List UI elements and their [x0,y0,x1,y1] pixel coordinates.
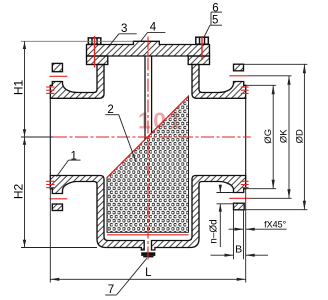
body lower-left wall, left pipe lower wall, bottom left half [50,176,144,251]
callout 6 over 5 [204,12,222,37]
body top flange block right [188,56,209,65]
bolt centerline left [94,36,96,68]
right flange bolt hole centerlines [229,75,248,77]
svg-text:H2: H2 [11,184,25,200]
left flange bolt hole centerlines [50,75,68,77]
dimension H1 [21,41,133,137]
left flange top block [52,63,62,71]
svg-text:B: B [235,244,242,256]
chamfer dimension fX45 [229,228,287,230]
centerline black segment left [21,136,54,138]
strainer basket item 2 perforated screen [107,96,189,235]
svg-text:L: L [145,267,152,279]
callout 7 [105,258,147,295]
svg-text:5: 5 [212,14,218,26]
svg-text:1: 1 [70,150,76,162]
right flange bottom block [234,203,245,210]
gasket face red ticks right flange [241,87,249,188]
dimension n-Od bolt hole [217,185,234,247]
bolt centerline right [201,36,203,60]
bolt left item 5 [88,38,101,44]
dimension OG [246,85,277,188]
bolt right item 5 [196,37,209,44]
dimension OD [244,64,308,209]
svg-text:ØD: ØD [294,129,305,143]
svg-text:fX45°: fX45° [264,219,287,229]
callout 2 [105,115,136,162]
cover plate item 3 [87,41,210,56]
svg-text:3: 3 [121,23,127,35]
svg-text:ØK: ØK [279,129,290,143]
right flange top block [234,64,244,71]
body top flange block left [87,56,108,65]
left flange bottom block [52,204,62,211]
svg-text:7: 7 [108,284,114,296]
callout 1 [57,160,81,176]
svg-text:4: 4 [150,22,157,34]
drain plug item 7 [141,252,155,256]
callout 4 [141,32,166,41]
svg-text:6: 6 [212,2,218,14]
svg-text:2: 2 [107,104,113,116]
horizontal centerline [54,136,251,138]
svg-text:H1: H1 [11,80,25,96]
svg-text:ØG: ØG [263,129,274,144]
callout 3 [107,34,137,49]
vertical centerline [147,37,149,260]
left flange face edge line through bore [49,98,51,175]
gasket face red ticks left flange [46,87,54,188]
dimension L [50,189,245,283]
dimension H2 [21,137,97,248]
dimension OK [248,76,292,199]
body upper-left wall with left pipe upper wall and flange hub [50,65,104,99]
dimension B [211,210,269,260]
right flange face edge line through bore [245,98,247,175]
body upper-right wall with right pipe upper wall and flange hub [192,65,246,99]
svg-text:n–Ød: n–Ød [209,219,220,243]
basket stem item 4 [144,56,146,140]
body lower-right wall, right pipe lower wall, bottom right half [152,176,246,251]
